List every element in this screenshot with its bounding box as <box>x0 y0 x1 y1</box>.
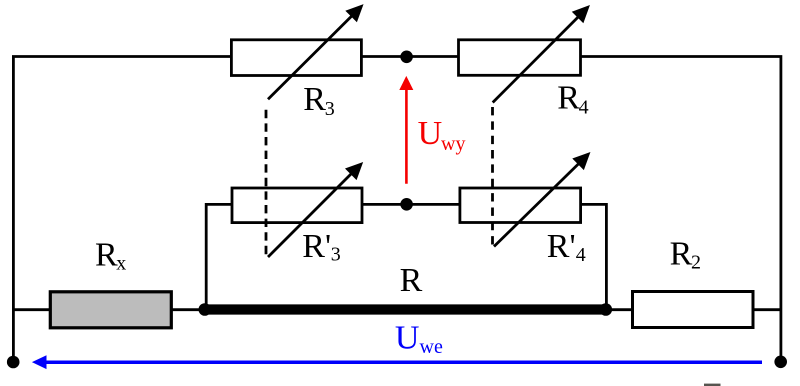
wire node B to R'4 <box>407 203 460 206</box>
svg-text:3: 3 <box>331 244 341 266</box>
svg-text:we: we <box>420 336 443 358</box>
resistor R4 <box>459 40 581 76</box>
svg-text:x: x <box>116 253 126 275</box>
svg-text:4: 4 <box>576 244 586 266</box>
svg-text:R: R <box>400 262 423 299</box>
wire Rx to node C <box>171 308 205 311</box>
resistor R'4 <box>460 188 581 223</box>
resistor R2 <box>633 292 754 328</box>
svg-text:R: R <box>95 237 118 274</box>
R4 wiper arrow <box>493 6 589 102</box>
red output arrow Uwy <box>399 76 413 184</box>
svg-text:R': R' <box>547 228 576 265</box>
svg-text:R: R <box>303 81 326 118</box>
R'3 wiper arrow <box>268 163 362 257</box>
node F bottom-right junction dot <box>774 356 787 369</box>
dashed coupling line R4-R'4 <box>491 107 494 245</box>
bottom-edge caption fragment <box>704 384 721 386</box>
wire R4 to right rail + right vertical rail <box>581 57 781 363</box>
wire R3 to R4 <box>362 55 459 58</box>
svg-text:3: 3 <box>325 98 335 120</box>
wire node C up to R'3 <box>206 204 232 309</box>
svg-text:U: U <box>395 320 420 357</box>
node A junction dot <box>400 51 413 64</box>
svg-text:4: 4 <box>579 96 589 118</box>
svg-text:wy: wy <box>441 133 465 155</box>
node E bottom-left junction dot <box>7 356 20 369</box>
node D junction dot <box>600 303 613 316</box>
resistor Rx <box>50 292 171 328</box>
slidewire R thick bar <box>205 304 606 314</box>
R3 wiper arrow <box>268 5 362 99</box>
R'4 wiper arrow <box>494 153 589 246</box>
svg-text:R: R <box>670 236 693 273</box>
node B junction dot <box>400 198 413 211</box>
resistor R'3 <box>232 188 362 223</box>
wire node D to R2 <box>606 308 633 311</box>
node C junction dot <box>199 303 212 316</box>
wire R'3 to node B <box>362 203 407 206</box>
wire R2 to right rail <box>753 308 781 311</box>
dashed coupling line R3-R'3 <box>265 110 268 254</box>
svg-text:R: R <box>557 80 580 117</box>
wire R'4 right down to node D <box>581 204 607 309</box>
wire left rail to Rx <box>13 308 50 311</box>
svg-text:U: U <box>418 115 443 152</box>
wire top-left + left vertical rail <box>13 57 231 363</box>
svg-text:R': R' <box>302 228 331 265</box>
svg-text:2: 2 <box>691 251 701 273</box>
resistor R3 <box>231 40 361 76</box>
blue input arrow Uwe <box>32 355 762 369</box>
